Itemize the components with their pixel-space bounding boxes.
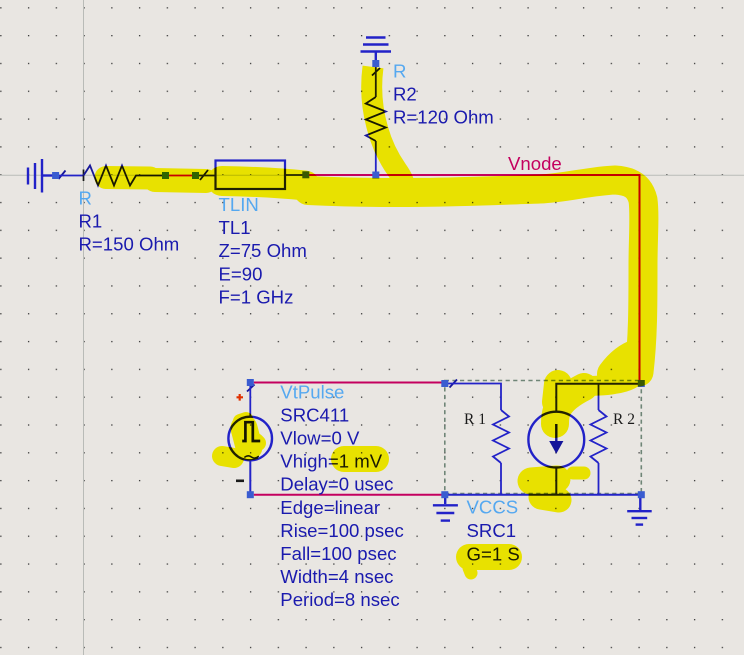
svg-text:R=150 Ohm: R=150 Ohm — [79, 234, 180, 255]
ground GND2 (top) — [361, 38, 392, 62]
plus sign — [237, 394, 244, 401]
svg-text:R 2: R 2 — [613, 411, 635, 428]
pin slash box top-left — [450, 380, 458, 388]
svg-text:R: R — [79, 188, 92, 209]
resistor R1 zigzag — [84, 166, 164, 186]
wire to internal R2 — [598, 384, 600, 410]
VCCS arrow — [555, 424, 557, 442]
highlighter layer — [106, 67, 644, 573]
svg-text:Fall=100 psec: Fall=100 psec — [280, 543, 396, 564]
node VCCS box bottom-left — [441, 491, 448, 498]
VCCS top wire — [556, 384, 639, 412]
svg-text:R 1: R 1 — [464, 411, 486, 428]
axis line vertical — [83, 0, 85, 655]
R1 pin tick — [83, 170, 85, 182]
highlight under VCCS circle — [531, 479, 557, 481]
highlight over Vhigh value — [344, 446, 376, 472]
node at R2 top — [372, 60, 379, 67]
minus sign — [236, 480, 244, 483]
VCCS source circle — [528, 412, 584, 468]
node Vnode junction at R2 bottom — [372, 172, 379, 179]
pin slash TLIN — [200, 170, 208, 180]
svg-text:R2: R2 — [393, 84, 417, 105]
pin slash left — [59, 171, 66, 180]
internal R2 bottom lead — [598, 463, 600, 495]
svg-text:VCCS: VCCS — [467, 496, 519, 517]
axis line horizontal — [0, 174, 744, 176]
svg-text:Vnode: Vnode — [508, 153, 562, 174]
svg-text:VtPulse: VtPulse — [280, 381, 344, 402]
highlight over SRC411 circle — [244, 428, 249, 447]
node VCCS box top-left — [441, 380, 448, 387]
wire into TLIN — [199, 175, 216, 177]
svg-text:TL1: TL1 — [219, 217, 251, 238]
ground GND4 (below box right) — [627, 498, 652, 525]
SRC411 top lead — [249, 386, 251, 417]
pulse waveform — [242, 422, 260, 441]
svg-text:R: R — [393, 61, 406, 82]
svg-text:Edge=linear: Edge=linear — [280, 497, 380, 518]
node at R1 input — [52, 172, 59, 179]
svg-text:E=90: E=90 — [219, 263, 263, 284]
svg-text:Period=8 nsec: Period=8 nsec — [280, 589, 399, 610]
internal resistor R2 zigzag — [591, 410, 607, 463]
red wire segment — [169, 175, 192, 177]
node SRC411 minus — [247, 491, 254, 498]
svg-text:Delay=0 usec: Delay=0 usec — [280, 474, 393, 495]
green pin square 2 — [192, 172, 199, 179]
pin slash R2 — [372, 68, 380, 76]
highlight main sweep left — [106, 166, 150, 190]
svg-text:R1: R1 — [79, 211, 103, 232]
svg-text:Width=4 nsec: Width=4 nsec — [280, 566, 393, 587]
green pin square 1 — [162, 172, 169, 179]
VCCS bottom wire — [555, 468, 557, 495]
wire SRC411 to box bottom (magenta) — [254, 494, 445, 496]
svg-text:Z=75 Ohm: Z=75 Ohm — [219, 240, 307, 261]
resistor R2 zigzag — [366, 97, 386, 141]
svg-text:SRC411: SRC411 — [280, 405, 349, 426]
node VCCS box top-right — [638, 380, 645, 387]
source SRC411 circle — [228, 417, 272, 461]
SRC411 bottom lead — [249, 460, 251, 492]
internal resistor R1 zigzag — [493, 410, 509, 463]
R2 top lead — [375, 66, 377, 97]
node VCCS box bottom-right — [638, 491, 645, 498]
svg-text:SRC1: SRC1 — [467, 520, 517, 541]
svg-text:R=120 Ohm: R=120 Ohm — [393, 107, 494, 128]
ac squiggle — [244, 456, 258, 459]
highlight main sweep right — [308, 180, 644, 372]
svg-text:TLIN: TLIN — [219, 194, 259, 215]
ground GND3 (below box left) — [433, 498, 458, 521]
highlight over R2 — [372, 67, 405, 190]
wire Vnode (magenta) — [309, 175, 640, 384]
R2 bottom lead — [375, 141, 377, 175]
node SRC411 plus — [247, 379, 254, 386]
ground GND1 (left, sideways) — [28, 159, 53, 193]
highlight over G=1 S — [469, 544, 509, 570]
svg-text:F=1 GHz: F=1 GHz — [219, 286, 294, 307]
internal R1 bottom lead — [500, 463, 502, 495]
svg-text:Rise=100 psec: Rise=100 psec — [280, 520, 404, 541]
wire to R1 — [59, 175, 84, 177]
svg-text:Vlow=0 V: Vlow=0 V — [280, 428, 360, 449]
wire to internal R1 — [448, 384, 501, 411]
node at TLIN output — [302, 171, 309, 178]
VCCS dashed selection box — [445, 381, 642, 494]
TLIN TL1 box — [216, 161, 286, 190]
bottom rail wire — [445, 494, 642, 496]
wire from TLIN — [285, 174, 303, 176]
wire SRC411 to box top (magenta) — [254, 382, 445, 384]
pin slash SRC411 top — [247, 385, 255, 392]
